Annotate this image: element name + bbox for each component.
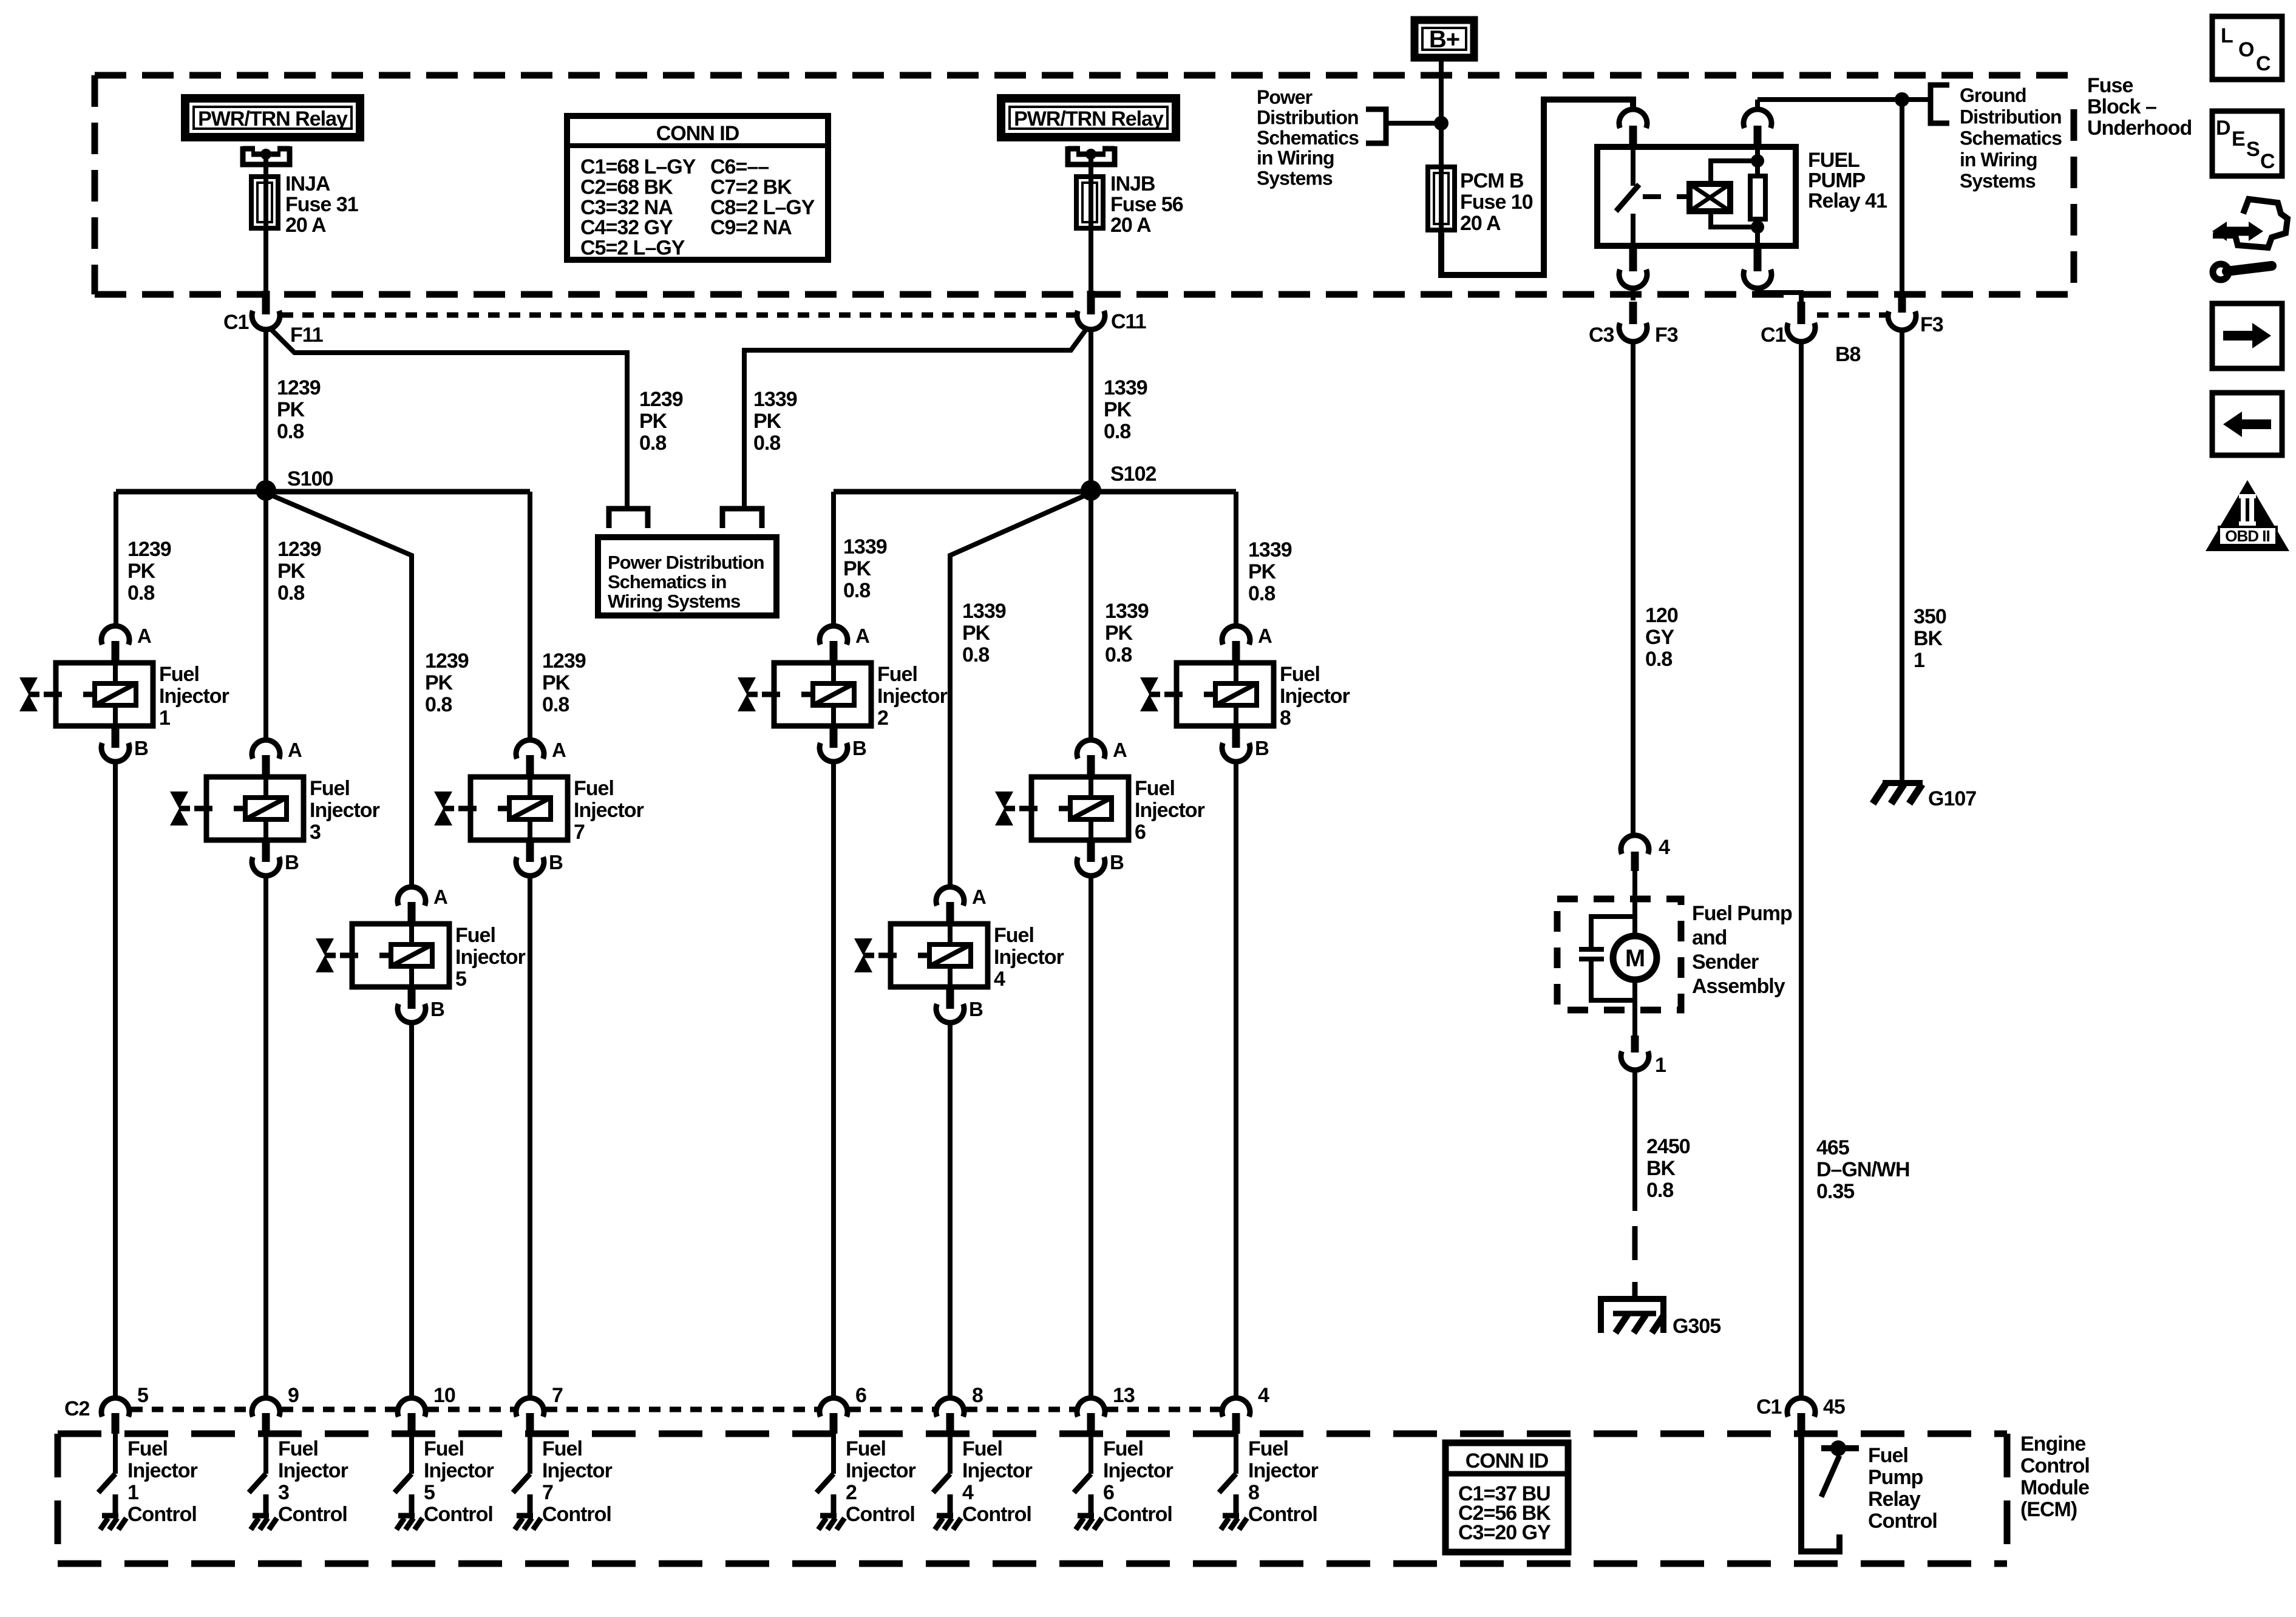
wire B8 to ECM fuel pump relay control bbox=[1799, 342, 1804, 1397]
svg-text:B8: B8 bbox=[1835, 343, 1861, 366]
ground (injector 3 control) bbox=[251, 1516, 277, 1530]
svg-text:Injector: Injector bbox=[846, 1459, 916, 1482]
dotted connector line C2 row bbox=[131, 1407, 1220, 1412]
B+ battery feed symbol bbox=[1415, 20, 1474, 58]
fuel pump and sender assembly dashed box bbox=[1557, 899, 1681, 1010]
label 1339 PK 0.8 (injector 8 feed) bbox=[1248, 538, 1292, 605]
svg-text:BK: BK bbox=[1646, 1157, 1676, 1180]
fuel injector 8 bbox=[1140, 625, 1350, 762]
S102 branch bus bbox=[834, 492, 1236, 885]
svg-text:Systems: Systems bbox=[1257, 168, 1333, 189]
fuse INJB Fuse 56 bbox=[1076, 154, 1103, 291]
ground distribution bracket bbox=[1931, 85, 1949, 123]
relay 41 switch-side top connector bbox=[1619, 109, 1647, 147]
ECM connector pin 5 (injector 1) bbox=[101, 1384, 148, 1434]
wire relay coil to ground distribution bbox=[1758, 97, 1929, 102]
svg-text:1239: 1239 bbox=[639, 388, 683, 411]
svg-text:F3: F3 bbox=[1655, 324, 1678, 347]
svg-text:B+: B+ bbox=[1429, 26, 1459, 53]
svg-text:Fuel: Fuel bbox=[310, 777, 350, 800]
svg-text:Engine: Engine bbox=[2020, 1432, 2085, 1456]
fuel injector 5 bbox=[316, 886, 526, 1023]
node F3 junction bbox=[1895, 92, 1909, 107]
label INJB Fuse 56 20 A bbox=[1110, 172, 1183, 237]
svg-text:B: B bbox=[1110, 851, 1124, 873]
ground (injector 6 control) bbox=[1076, 1516, 1102, 1530]
svg-text:Control: Control bbox=[1868, 1510, 1937, 1533]
label 465 D-GN/WH 0.35 bbox=[1816, 1136, 1910, 1203]
svg-text:20 A: 20 A bbox=[1460, 212, 1501, 235]
svg-text:Injector: Injector bbox=[574, 799, 644, 822]
svg-text:A: A bbox=[137, 625, 151, 647]
svg-text:7: 7 bbox=[542, 1481, 553, 1504]
fuel injector 3 bbox=[170, 739, 380, 876]
svg-text:Injector: Injector bbox=[1103, 1459, 1173, 1482]
svg-text:120: 120 bbox=[1645, 604, 1678, 627]
svg-text:Fuse 56: Fuse 56 bbox=[1110, 193, 1183, 216]
svg-text:PK: PK bbox=[127, 560, 156, 583]
label Fuel Injector 4 Control bbox=[962, 1437, 1033, 1526]
power distribution bracket bbox=[1366, 109, 1441, 143]
label Power Distribution Schematics in Wiring Systems bbox=[1257, 86, 1359, 189]
icon DESC bbox=[2212, 111, 2282, 176]
connector C1 pin 45 bbox=[1756, 1395, 1845, 1434]
svg-text:Power Distribution: Power Distribution bbox=[608, 552, 764, 573]
svg-text:9: 9 bbox=[288, 1384, 299, 1407]
wire fuel injector 4 B to ECM pin bbox=[948, 1025, 953, 1397]
relay 41 coil (X-box) bbox=[1690, 184, 1730, 211]
ECM connector pin 8 (injector 4) bbox=[936, 1384, 983, 1434]
label 1339 PK 0.8 (injector 4 feed) bbox=[962, 600, 1006, 666]
label 1339 PK 0.8 (C11 branch) bbox=[753, 388, 797, 455]
svg-text:Control: Control bbox=[424, 1503, 493, 1526]
svg-text:A: A bbox=[1258, 625, 1272, 647]
relay 41 switch-side bottom connector bbox=[1619, 246, 1647, 300]
svg-text:Fuel: Fuel bbox=[1103, 1437, 1143, 1460]
engine control module dashed box bbox=[58, 1434, 2007, 1564]
svg-text:1239: 1239 bbox=[127, 538, 171, 561]
svg-text:Control: Control bbox=[1248, 1503, 1317, 1526]
CONN ID table (ECM) bbox=[1445, 1443, 1568, 1552]
wire C11 to S102 bbox=[1089, 329, 1093, 489]
svg-text:A: A bbox=[433, 886, 447, 908]
svg-text:S100: S100 bbox=[287, 467, 333, 490]
icon LOC bbox=[2212, 16, 2282, 80]
svg-text:FUEL: FUEL bbox=[1808, 149, 1860, 172]
svg-text:PK: PK bbox=[542, 671, 571, 694]
label Fuel Injector 5 Control bbox=[424, 1437, 494, 1526]
svg-text:Assembly: Assembly bbox=[1692, 975, 1785, 998]
ground (injector 7 control) bbox=[515, 1516, 541, 1530]
svg-text:Control: Control bbox=[542, 1503, 611, 1526]
svg-text:Block –: Block – bbox=[2087, 95, 2156, 118]
svg-text:in Wiring: in Wiring bbox=[1257, 147, 1334, 169]
label 1239 PK 0.8 (injector 1 feed) bbox=[127, 538, 171, 605]
fuel injector 7 bbox=[434, 739, 644, 876]
label PCM B Fuse 10 20 A bbox=[1460, 169, 1533, 235]
svg-text:in Wiring: in Wiring bbox=[1960, 149, 2037, 171]
svg-text:Fuel Pump: Fuel Pump bbox=[1692, 902, 1792, 925]
svg-text:Fuel: Fuel bbox=[1868, 1444, 1908, 1467]
svg-text:B: B bbox=[1255, 737, 1269, 759]
fuse INJA Fuse 31 bbox=[251, 154, 278, 291]
svg-text:C6=––: C6=–– bbox=[710, 155, 769, 178]
svg-text:D: D bbox=[2216, 117, 2230, 140]
wire fuel injector 8 B to ECM pin bbox=[1234, 764, 1238, 1397]
icon back arrow bbox=[2212, 393, 2282, 455]
svg-text:1339: 1339 bbox=[753, 388, 797, 411]
wire fuel injector 3 B to ECM pin bbox=[263, 878, 268, 1397]
svg-text:Fuel: Fuel bbox=[1135, 777, 1175, 800]
svg-text:PK: PK bbox=[277, 560, 306, 583]
label Fuel Injector 8 Control bbox=[1248, 1437, 1319, 1526]
label Ground Distribution Schematics in Wiring Systems bbox=[1960, 84, 2062, 192]
ECM connector pin 4 (injector 8) bbox=[1222, 1384, 1269, 1434]
svg-text:Control: Control bbox=[962, 1503, 1031, 1526]
svg-text:A: A bbox=[972, 886, 986, 908]
ground (injector 2 control) bbox=[818, 1516, 844, 1530]
fuel injector 8 control driver bbox=[1219, 1434, 1236, 1516]
svg-text:1: 1 bbox=[1914, 649, 1924, 672]
svg-text:INJB: INJB bbox=[1110, 172, 1155, 195]
fuel pump motor bbox=[1613, 871, 1657, 1036]
relay 2 fuse clip bbox=[1068, 146, 1115, 164]
node S100 bbox=[256, 467, 333, 501]
svg-text:and: and bbox=[1692, 926, 1727, 949]
svg-text:Fuel: Fuel bbox=[994, 924, 1034, 947]
relay 41 switch bbox=[1616, 147, 1639, 246]
relay 41 coil-side bottom connector bbox=[1744, 246, 1801, 302]
fuel pump relay 41 box bbox=[1597, 147, 1796, 246]
svg-text:1339: 1339 bbox=[1248, 538, 1292, 561]
svg-text:D–GN/WH: D–GN/WH bbox=[1816, 1158, 1910, 1181]
svg-text:0.8: 0.8 bbox=[425, 693, 452, 716]
fuel injector 7 control driver bbox=[513, 1434, 530, 1516]
svg-text:0.8: 0.8 bbox=[1105, 643, 1132, 666]
svg-text:Fuse 10: Fuse 10 bbox=[1460, 191, 1533, 214]
node S102 bbox=[1081, 463, 1156, 501]
wire C1 to S100 bbox=[263, 330, 268, 489]
relay 41 switch-coil link (dashed) bbox=[1643, 194, 1687, 199]
svg-text:B: B bbox=[134, 737, 148, 759]
svg-text:Fuel: Fuel bbox=[455, 924, 495, 947]
label INJA Fuse 31 20 A bbox=[285, 172, 358, 237]
svg-text:A: A bbox=[855, 625, 869, 647]
svg-text:1239: 1239 bbox=[425, 649, 469, 673]
svg-text:C11: C11 bbox=[1111, 310, 1146, 333]
svg-text:20 A: 20 A bbox=[1110, 214, 1151, 237]
svg-text:Fuel: Fuel bbox=[1248, 1437, 1288, 1460]
ECM connector pin 7 (injector 7) bbox=[516, 1384, 563, 1434]
ECM connector pin 6 (injector 2) bbox=[820, 1384, 866, 1434]
svg-text:465: 465 bbox=[1816, 1136, 1849, 1159]
fuel injector 4 control driver bbox=[933, 1434, 950, 1516]
svg-text:0.8: 0.8 bbox=[127, 581, 154, 605]
label 1239 PK 0.8 (injector 7 feed) bbox=[542, 649, 586, 716]
svg-text:1339: 1339 bbox=[843, 535, 887, 558]
svg-text:PK: PK bbox=[753, 410, 782, 433]
svg-text:PUMP: PUMP bbox=[1808, 169, 1866, 192]
svg-text:8: 8 bbox=[972, 1384, 983, 1407]
svg-text:5: 5 bbox=[455, 968, 466, 991]
connector C1/B8 (fuel pump relay output) bbox=[1761, 302, 1861, 366]
svg-text:Injector: Injector bbox=[159, 685, 229, 708]
svg-text:2: 2 bbox=[846, 1481, 857, 1504]
svg-text:C2=68 BK: C2=68 BK bbox=[580, 175, 673, 198]
svg-text:0.8: 0.8 bbox=[753, 432, 780, 455]
svg-text:Control: Control bbox=[846, 1503, 915, 1526]
svg-text:PK: PK bbox=[843, 557, 872, 580]
power distribution schematics box bbox=[598, 537, 776, 615]
svg-text:B: B bbox=[430, 998, 444, 1020]
svg-text:Injector: Injector bbox=[455, 946, 526, 969]
svg-text:Distribution: Distribution bbox=[1257, 106, 1359, 128]
svg-text:Injector: Injector bbox=[962, 1459, 1033, 1482]
label Engine Control Module (ECM) bbox=[2020, 1432, 2090, 1521]
label C2 bbox=[64, 1397, 90, 1420]
icon OBD II bbox=[2206, 480, 2289, 551]
svg-text:Pump: Pump bbox=[1868, 1466, 1923, 1489]
ECM connector pin 9 (injector 3) bbox=[252, 1384, 299, 1434]
svg-text:C9=2 NA: C9=2 NA bbox=[710, 216, 792, 239]
svg-text:L: L bbox=[2221, 24, 2233, 47]
svg-text:0.8: 0.8 bbox=[542, 693, 569, 716]
svg-text:PWR/TRN Relay: PWR/TRN Relay bbox=[198, 107, 348, 131]
wire B+ down to PCM B fuse bbox=[1439, 58, 1444, 169]
svg-text:Injector: Injector bbox=[877, 685, 948, 708]
label 1239 PK 0.8 (C1 feed) bbox=[277, 376, 321, 443]
svg-text:1: 1 bbox=[159, 707, 170, 730]
CONN ID table (fuse block) bbox=[567, 116, 828, 260]
svg-text:Injector: Injector bbox=[127, 1459, 198, 1482]
wire fuel injector 1 B to ECM pin bbox=[113, 764, 118, 1397]
svg-text:S: S bbox=[2246, 138, 2260, 161]
svg-text:0.8: 0.8 bbox=[1104, 420, 1130, 443]
svg-text:C1=68 L–GY: C1=68 L–GY bbox=[580, 155, 696, 178]
svg-text:350: 350 bbox=[1914, 605, 1946, 628]
svg-text:PK: PK bbox=[1105, 622, 1133, 645]
svg-text:C3=32 NA: C3=32 NA bbox=[580, 196, 673, 219]
PWR/TRN Relay 2 label box bbox=[1001, 98, 1176, 137]
wire C3 to fuel pump bbox=[1631, 342, 1635, 835]
svg-text:C: C bbox=[2256, 52, 2271, 75]
svg-text:Injector: Injector bbox=[278, 1459, 348, 1482]
connector C11 bbox=[1077, 291, 1146, 333]
relay 41 coil suppression resistor bbox=[1750, 176, 1765, 219]
svg-text:1239: 1239 bbox=[277, 538, 321, 561]
svg-text:5: 5 bbox=[137, 1384, 148, 1407]
svg-text:Fuse 31: Fuse 31 bbox=[285, 193, 358, 216]
svg-text:Injector: Injector bbox=[994, 946, 1064, 969]
svg-text:C1: C1 bbox=[1761, 324, 1786, 347]
connector C3/F3 bbox=[1589, 302, 1678, 347]
svg-text:6: 6 bbox=[855, 1384, 866, 1407]
svg-text:CONN ID: CONN ID bbox=[656, 122, 739, 145]
fuel pump relay control driver bbox=[1801, 1434, 1859, 1551]
wire PCM B fuse to relay switch bbox=[1441, 100, 1633, 275]
fuel injector 1 control driver bbox=[98, 1434, 115, 1516]
svg-text:0.8: 0.8 bbox=[1646, 1179, 1673, 1202]
wire C11 branch to power distribution box bbox=[722, 328, 1087, 528]
fuse block underhood dashed box bbox=[95, 75, 2074, 294]
svg-text:PWR/TRN Relay: PWR/TRN Relay bbox=[1014, 107, 1164, 131]
dotted connector line C1 to C11 bbox=[282, 313, 1075, 318]
svg-text:Fuel: Fuel bbox=[542, 1437, 582, 1460]
svg-text:Relay 41: Relay 41 bbox=[1808, 189, 1887, 212]
svg-text:Systems: Systems bbox=[1960, 170, 2036, 192]
relay 41 coil-side top connector bbox=[1744, 100, 1771, 147]
svg-text:C3: C3 bbox=[1589, 324, 1614, 347]
svg-text:PK: PK bbox=[425, 671, 453, 694]
svg-text:6: 6 bbox=[1135, 821, 1146, 844]
label 1339 PK 0.8 (C11 feed) bbox=[1104, 376, 1147, 443]
svg-text:Underhood: Underhood bbox=[2087, 117, 2192, 140]
svg-text:2450: 2450 bbox=[1646, 1135, 1690, 1158]
svg-text:E: E bbox=[2232, 127, 2245, 151]
svg-text:Fuel: Fuel bbox=[962, 1437, 1002, 1460]
svg-text:INJA: INJA bbox=[285, 172, 330, 195]
label 1239 PK 0.8 (injector 3 feed) bbox=[277, 538, 321, 605]
svg-text:1339: 1339 bbox=[1105, 600, 1149, 623]
svg-text:Control: Control bbox=[127, 1503, 197, 1526]
svg-text:C2: C2 bbox=[64, 1397, 90, 1420]
svg-text:0.8: 0.8 bbox=[639, 432, 666, 455]
fuel injector 3 control driver bbox=[249, 1434, 266, 1516]
connector 1 (fuel pump ground) bbox=[1621, 1036, 1666, 1077]
fuel injector 6 bbox=[995, 739, 1205, 876]
svg-text:BK: BK bbox=[1914, 627, 1943, 650]
svg-text:7: 7 bbox=[574, 821, 585, 844]
svg-text:Schematics: Schematics bbox=[1257, 127, 1359, 149]
svg-text:Injector: Injector bbox=[1280, 685, 1350, 708]
svg-text:2: 2 bbox=[877, 707, 888, 730]
relay 1 fuse clip bbox=[243, 146, 290, 164]
label 2450 BK 0.8 bbox=[1646, 1135, 1690, 1202]
svg-text:6: 6 bbox=[1103, 1481, 1114, 1504]
svg-text:Relay: Relay bbox=[1868, 1488, 1921, 1511]
connector C1/F11 bbox=[223, 291, 323, 347]
svg-text:20 A: 20 A bbox=[285, 214, 326, 237]
svg-text:C5=2 L–GY: C5=2 L–GY bbox=[580, 237, 685, 260]
svg-text:G107: G107 bbox=[1928, 787, 1976, 810]
ground G107 bbox=[1873, 783, 1976, 810]
ground (injector 5 control) bbox=[396, 1516, 423, 1530]
svg-text:0.8: 0.8 bbox=[1248, 582, 1275, 605]
svg-text:4: 4 bbox=[994, 968, 1005, 991]
svg-text:Schematics in: Schematics in bbox=[608, 571, 727, 592]
svg-text:Injector: Injector bbox=[1135, 799, 1205, 822]
svg-text:PK: PK bbox=[277, 398, 305, 421]
svg-text:PK: PK bbox=[962, 622, 991, 645]
svg-text:A: A bbox=[1113, 739, 1127, 761]
svg-text:C7=2 BK: C7=2 BK bbox=[710, 175, 792, 198]
fuel injector 4 bbox=[854, 886, 1064, 1023]
svg-text:B: B bbox=[969, 998, 983, 1020]
svg-text:1339: 1339 bbox=[1104, 376, 1147, 399]
label Fuel Injector 3 Control bbox=[278, 1437, 348, 1526]
svg-text:Fuel: Fuel bbox=[159, 663, 199, 686]
ground (injector 8 control) bbox=[1221, 1516, 1247, 1530]
svg-text:B: B bbox=[285, 851, 299, 873]
svg-text:O: O bbox=[2238, 38, 2254, 61]
connector F3 (ground feed) bbox=[1888, 100, 1943, 336]
wire F11 branch to power distribution box bbox=[270, 328, 648, 528]
dotted connector line B8 to F3 bbox=[1817, 313, 1886, 318]
label 350 BK 1 bbox=[1914, 605, 1946, 672]
svg-text:Sender: Sender bbox=[1692, 951, 1759, 974]
svg-text:0.8: 0.8 bbox=[843, 579, 870, 602]
svg-text:Fuel: Fuel bbox=[1280, 663, 1320, 686]
icon forward arrow bbox=[2212, 303, 2282, 368]
svg-text:1: 1 bbox=[1655, 1054, 1666, 1077]
svg-text:PK: PK bbox=[1104, 398, 1132, 421]
svg-text:Wiring Systems: Wiring Systems bbox=[608, 591, 740, 612]
ECM connector pin 10 (injector 5) bbox=[398, 1384, 455, 1434]
svg-text:8: 8 bbox=[1280, 707, 1291, 730]
svg-text:Injector: Injector bbox=[424, 1459, 494, 1482]
svg-text:Fuel: Fuel bbox=[278, 1437, 318, 1460]
wire F3 to G107 bbox=[1900, 331, 1904, 783]
svg-text:Schematics: Schematics bbox=[1960, 127, 2062, 149]
ground (injector 4 control) bbox=[935, 1516, 961, 1530]
svg-text:Control: Control bbox=[1103, 1503, 1172, 1526]
svg-text:Power: Power bbox=[1257, 86, 1313, 108]
fuel injector 5 control driver bbox=[395, 1434, 412, 1516]
svg-text:4: 4 bbox=[1659, 836, 1670, 859]
svg-text:4: 4 bbox=[962, 1481, 974, 1504]
svg-text:4: 4 bbox=[1258, 1384, 1269, 1407]
svg-text:C1: C1 bbox=[223, 311, 249, 334]
svg-text:F11: F11 bbox=[290, 324, 323, 347]
svg-text:3: 3 bbox=[310, 821, 321, 844]
label Fuel Injector 1 Control bbox=[127, 1437, 198, 1526]
svg-text:F3: F3 bbox=[1920, 313, 1943, 336]
wire fuel injector 5 B to ECM pin bbox=[409, 1025, 414, 1397]
svg-text:A: A bbox=[552, 739, 566, 761]
svg-text:S102: S102 bbox=[1110, 463, 1156, 486]
svg-text:0.8: 0.8 bbox=[277, 420, 304, 443]
fuel pump suppression capacitor bbox=[1579, 917, 1635, 1000]
svg-text:(ECM): (ECM) bbox=[2020, 1498, 2077, 1521]
svg-text:Distribution: Distribution bbox=[1960, 106, 2062, 127]
svg-text:Fuel: Fuel bbox=[877, 663, 917, 686]
svg-text:C3=20 GY: C3=20 GY bbox=[1458, 1521, 1551, 1544]
svg-text:8: 8 bbox=[1248, 1481, 1259, 1504]
svg-text:Fuel: Fuel bbox=[574, 777, 614, 800]
label 1239 PK 0.8 (F11 branch) bbox=[639, 388, 683, 455]
PWR/TRN Relay 1 label box bbox=[185, 98, 360, 137]
svg-text:5: 5 bbox=[424, 1481, 435, 1504]
svg-text:1239: 1239 bbox=[277, 376, 321, 399]
svg-text:1: 1 bbox=[127, 1481, 138, 1504]
label Fuse Block - Underhood bbox=[2087, 74, 2192, 140]
svg-text:0.35: 0.35 bbox=[1816, 1180, 1854, 1203]
fuel injector 2 bbox=[738, 625, 948, 762]
svg-text:CONN ID: CONN ID bbox=[1466, 1449, 1549, 1473]
ground (injector 1 control) bbox=[100, 1516, 126, 1530]
label FUEL PUMP Relay 41 bbox=[1808, 149, 1887, 212]
fuse PCM B Fuse 10 bbox=[1428, 167, 1455, 273]
svg-text:0.8: 0.8 bbox=[277, 581, 304, 605]
svg-text:PK: PK bbox=[1248, 560, 1277, 583]
svg-text:3: 3 bbox=[278, 1481, 289, 1504]
fuel injector 6 control driver bbox=[1074, 1434, 1091, 1516]
svg-text:7: 7 bbox=[552, 1384, 563, 1407]
svg-text:1239: 1239 bbox=[542, 649, 586, 673]
svg-text:C1: C1 bbox=[1756, 1395, 1782, 1419]
svg-text:13: 13 bbox=[1113, 1384, 1135, 1407]
wire fuel pump to G305 bbox=[1632, 1071, 1637, 1297]
